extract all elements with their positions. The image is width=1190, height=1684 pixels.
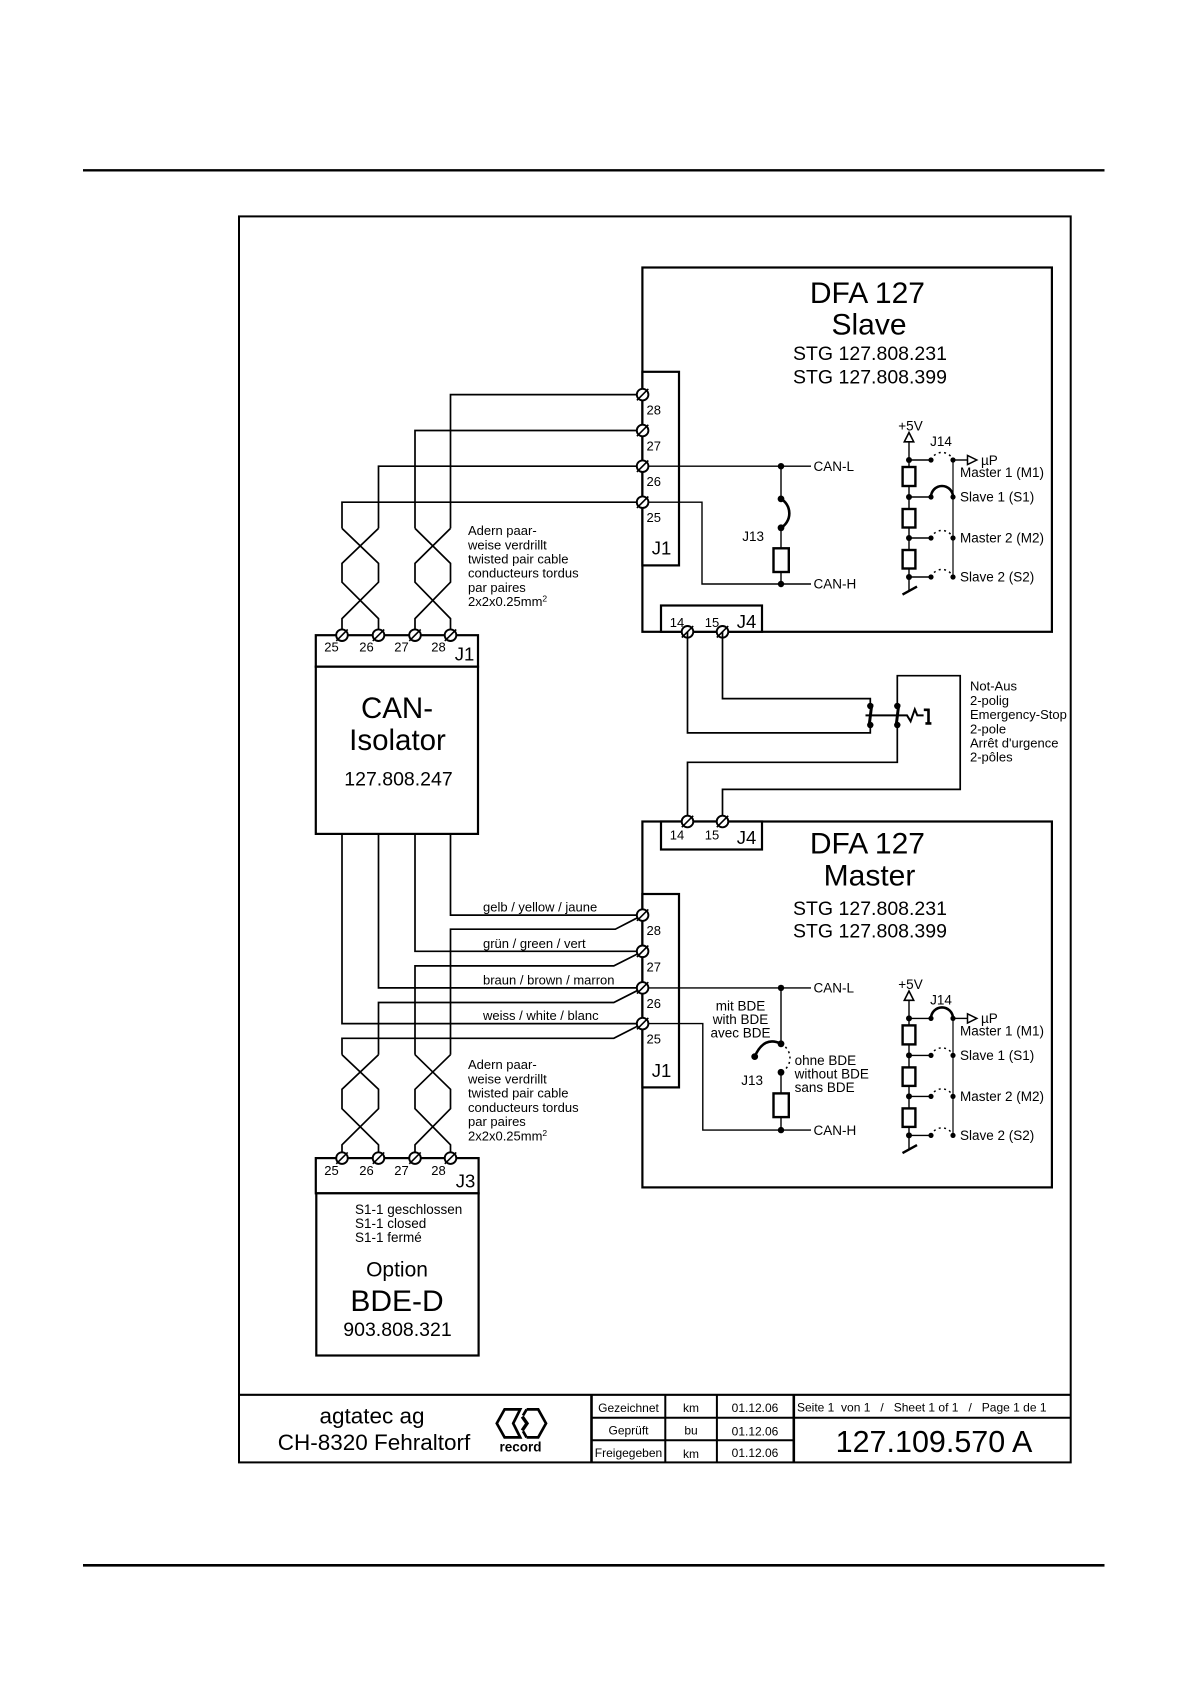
terminal 26 Isolator J1 xyxy=(373,629,385,641)
svg-text:01.12.06: 01.12.06 xyxy=(732,1401,779,1415)
wire return Master pin 25 to lower twisted pair column 1 xyxy=(342,1024,643,1055)
terminal 27 BDE J3 xyxy=(409,1152,421,1164)
BDE-D connector J3 box xyxy=(316,1158,479,1193)
svg-text:25: 25 xyxy=(647,510,661,525)
title block top line xyxy=(239,1394,1071,1396)
svg-text:par paires: par paires xyxy=(468,580,526,595)
svg-text:J14: J14 xyxy=(930,434,952,449)
terminal 25 Isolator J1 xyxy=(336,629,348,641)
company name text xyxy=(278,1404,471,1456)
svg-text:127.808.247: 127.808.247 xyxy=(344,769,452,791)
svg-text:2x2x0.25mm2: 2x2x0.25mm2 xyxy=(468,594,547,610)
svg-text:Slave 1 (S1): Slave 1 (S1) xyxy=(960,490,1034,505)
wire Slave pin 25 to CAN-H xyxy=(643,502,811,584)
svg-text:Seite 1 von 1 / Sheet 1 o: Seite 1 von 1 / Sheet 1 of 1 / Page 1 de… xyxy=(797,1401,1047,1415)
svg-text:2-pole: 2-pole xyxy=(970,721,1006,736)
svg-text:BDE-D: BDE-D xyxy=(350,1285,443,1318)
DFA 127 Slave box xyxy=(642,268,1052,632)
svg-text:STG 127.808.399: STG 127.808.399 xyxy=(793,921,947,943)
svg-text:27: 27 xyxy=(647,439,661,454)
wire from Slave J1 pin 26 to twisted pair column 2 xyxy=(379,466,643,528)
label Not-Aus text block xyxy=(970,679,1067,765)
svg-text:sans BDE: sans BDE xyxy=(795,1080,855,1095)
svg-text:J4: J4 xyxy=(737,611,757,632)
twisted pair upper pair A wire 2 xyxy=(342,528,379,635)
svg-text:conducteurs tordus: conducteurs tordus xyxy=(468,566,579,581)
svg-text:Adern paar-: Adern paar- xyxy=(468,523,537,538)
twisted pair lower pair A wire 1 xyxy=(342,1055,379,1158)
svg-text:Freigegeben: Freigegeben xyxy=(595,1446,662,1460)
svg-text:Master 2 (M2): Master 2 (M2) xyxy=(960,531,1044,546)
terminal 15 Master J4 xyxy=(717,816,729,828)
terminal 28 Slave J1 xyxy=(637,389,649,401)
svg-text:S1-1 closed: S1-1 closed xyxy=(355,1216,426,1231)
svg-text:27: 27 xyxy=(647,959,661,974)
svg-text:par paires: par paires xyxy=(468,1114,526,1129)
jumper row S1 Master xyxy=(906,1048,956,1059)
wire Slave J4-15 to emergency stop pole 1 top xyxy=(723,632,871,706)
wire return Master pin 27 to lower twisted pair column 3 xyxy=(415,951,643,1054)
CAN-Isolator main box xyxy=(316,667,478,834)
svg-text:Not-Aus: Not-Aus xyxy=(970,679,1017,694)
DFA 127 Slave title xyxy=(793,277,947,389)
top rule xyxy=(83,169,1105,171)
+5V rail Slave xyxy=(908,441,910,591)
svg-text:Slave 2 (S2): Slave 2 (S2) xyxy=(960,1128,1034,1143)
connector J4 Slave box xyxy=(661,606,762,632)
resistor R1 Slave network xyxy=(903,467,916,486)
jumper J13 Slave top pin xyxy=(778,496,785,503)
terminal 27 Master J1 xyxy=(637,946,649,958)
svg-text:DFA 127: DFA 127 xyxy=(810,828,925,861)
svg-text:braun / brown / marron: braun / brown / marron xyxy=(483,972,615,987)
emergency stop actuator link xyxy=(866,709,924,721)
svg-text:Geprüft: Geprüft xyxy=(608,1424,649,1438)
jumper row S1 Slave closed xyxy=(906,486,956,500)
resistor R3 Slave network xyxy=(903,550,916,569)
wire return Master pin 26 to lower twisted pair column 2 xyxy=(379,988,643,1055)
label twisted pair upper xyxy=(467,523,579,609)
svg-text:14: 14 xyxy=(670,828,684,843)
svg-text:J13: J13 xyxy=(742,529,764,544)
wire CAN-L to jumper J13 Slave xyxy=(780,466,782,499)
terminal 28 Isolator J1 xyxy=(445,629,457,641)
wire resistor to CAN-H Slave xyxy=(780,572,782,584)
svg-text:+5V: +5V xyxy=(898,977,922,992)
wire from Slave J1 pin 27 to twisted pair column 3 xyxy=(415,431,643,529)
svg-text:J3: J3 xyxy=(456,1171,476,1192)
label ohne BDE block xyxy=(794,1053,869,1095)
terminal 28 Master J1 xyxy=(637,909,649,921)
terminal 26 BDE J3 xyxy=(373,1152,385,1164)
pin number labels Master J1 xyxy=(647,923,661,1047)
svg-text:Master 2 (M2): Master 2 (M2) xyxy=(960,1089,1044,1104)
svg-text:Slave: Slave xyxy=(831,309,906,342)
svg-text:CAN-L: CAN-L xyxy=(814,981,855,996)
svg-text:STG 127.808.231: STG 127.808.231 xyxy=(793,898,947,920)
svg-text:25: 25 xyxy=(324,640,338,655)
terminal 14 Master J4 xyxy=(682,816,694,828)
CAN-Isolator connector J1 box xyxy=(316,635,478,667)
resistor R2 Master network xyxy=(903,1067,916,1086)
svg-text:CH-8320 Fehraltorf: CH-8320 Fehraltorf xyxy=(278,1430,471,1455)
connector J1 Master box xyxy=(642,894,679,1087)
svg-text:28: 28 xyxy=(647,403,661,418)
svg-text:15: 15 xyxy=(705,615,719,630)
svg-text:Arrêt d'urgence: Arrêt d'urgence xyxy=(970,736,1058,751)
svg-text:J1: J1 xyxy=(652,1060,672,1081)
svg-text:28: 28 xyxy=(647,923,661,938)
DFA 127 Master title xyxy=(793,828,947,943)
svg-text:conducteurs tordus: conducteurs tordus xyxy=(468,1100,579,1115)
pin number labels Isolator J1 xyxy=(324,640,445,655)
svg-text:25: 25 xyxy=(324,1163,338,1178)
svg-text:2-pôles: 2-pôles xyxy=(970,750,1013,765)
svg-text:weise verdrillt: weise verdrillt xyxy=(467,537,547,552)
title block table row lines xyxy=(592,1418,1071,1441)
svg-text:avec BDE: avec BDE xyxy=(710,1026,770,1041)
BDE-D main box xyxy=(316,1193,478,1355)
twisted pair lower pair B wire 2 xyxy=(415,1055,451,1158)
jumper row M2 Slave xyxy=(906,530,956,541)
svg-text:Option: Option xyxy=(366,1259,428,1282)
J14 select rail Slave xyxy=(952,460,954,577)
svg-text:25: 25 xyxy=(647,1032,661,1047)
svg-text:127.109.570 A: 127.109.570 A xyxy=(836,1425,1033,1459)
jumper J13 Master open arc (mit BDE position) xyxy=(755,1041,781,1056)
CAN-Isolator title xyxy=(344,692,452,791)
svg-text:grün / green / vert: grün / green / vert xyxy=(483,936,586,951)
wire from Slave J1 pin 28 to twisted pair column 4 xyxy=(451,395,643,529)
svg-text:CAN-H: CAN-H xyxy=(814,577,857,592)
jumper J13 Master park pin xyxy=(751,1053,758,1060)
+5V arrow Master xyxy=(904,991,913,1000)
title block table verticals xyxy=(592,1395,794,1463)
svg-text:weiss / white / blanc: weiss / white / blanc xyxy=(482,1008,599,1023)
svg-text:Master: Master xyxy=(824,860,916,893)
terminal 14 Slave J4 xyxy=(682,626,694,638)
wire emergency stop pole 2 top to Master J4-15 xyxy=(723,676,961,822)
label S1-1 switch state xyxy=(355,1202,462,1245)
svg-text:26: 26 xyxy=(647,474,661,489)
svg-text:26: 26 xyxy=(359,1163,373,1178)
svg-text:14: 14 xyxy=(670,615,684,630)
svg-text:J13: J13 xyxy=(741,1073,763,1088)
node CAN-H junction Master xyxy=(778,1127,784,1133)
terminal 25 BDE J3 xyxy=(336,1152,348,1164)
label twisted pair lower xyxy=(467,1057,579,1143)
terminal 26 Slave J1 xyxy=(637,460,649,472)
svg-text:STG 127.808.231: STG 127.808.231 xyxy=(793,343,947,365)
wire J13 to resistor Master xyxy=(780,1072,782,1093)
svg-text:28: 28 xyxy=(431,1163,445,1178)
jumper row S2 Master xyxy=(906,1128,956,1139)
jumper J13 Master bottom pin xyxy=(778,1069,785,1076)
svg-text:J4: J4 xyxy=(737,827,757,848)
svg-text:km: km xyxy=(683,1401,699,1415)
svg-text:903.808.321: 903.808.321 xyxy=(343,1319,451,1341)
svg-text:Adern paar-: Adern paar- xyxy=(468,1057,537,1072)
terminal 27 Slave J1 xyxy=(637,425,649,437)
resistor R2 Slave network xyxy=(903,509,916,528)
svg-text:Master 1 (M1): Master 1 (M1) xyxy=(960,465,1044,480)
terminal 28 BDE J3 xyxy=(445,1152,457,1164)
twisted pair lower pair B wire 1 xyxy=(415,1055,451,1158)
connector J1 Slave box xyxy=(642,372,679,566)
jumper row M1 Master closed xyxy=(906,1007,956,1021)
svg-text:27: 27 xyxy=(394,640,408,655)
jumper J13 Slave closed arc xyxy=(781,499,789,528)
terminal 27 Isolator J1 xyxy=(409,629,421,641)
svg-text:km: km xyxy=(683,1447,699,1461)
wire Master pin 26 to CAN-L xyxy=(643,987,811,989)
svg-text:CAN-L: CAN-L xyxy=(814,459,855,474)
emergency stop switch S1 pole 1 xyxy=(867,703,873,728)
jumper J13 Master top pin xyxy=(778,1040,785,1047)
svg-text:S1-1 fermé: S1-1 fermé xyxy=(355,1230,422,1245)
resistor R3 Master network xyxy=(903,1108,916,1127)
+5V rail Master xyxy=(908,1000,910,1150)
twisted pair upper pair B wire 2 xyxy=(415,528,451,635)
terminal 26 Master J1 xyxy=(637,982,649,994)
svg-text:CAN-H: CAN-H xyxy=(814,1123,857,1138)
jumper J13 Slave bottom pin xyxy=(778,524,785,531)
emergency stop switch S1 pole 2 xyxy=(894,703,900,728)
node CAN-L junction Slave xyxy=(778,463,784,469)
wire from Slave J1 pin 25 to twisted pair column 1 xyxy=(342,502,643,528)
+5V arrow Slave xyxy=(904,433,913,442)
jumper J13 Master dotted arc (ohne BDE position) xyxy=(781,1044,790,1073)
emergency stop actuator flag xyxy=(924,709,932,724)
label mit BDE block xyxy=(710,998,770,1040)
svg-text:agtatec ag: agtatec ag xyxy=(319,1404,424,1429)
jumper row S2 Slave xyxy=(906,569,956,580)
wire Isolator pin 28 feed to Master J1 pin 28 (gelb) xyxy=(451,834,643,915)
bottom rule xyxy=(83,1564,1105,1567)
microprocessor arrow Slave xyxy=(953,455,977,464)
approval table texts xyxy=(595,1401,779,1461)
svg-text:Isolator: Isolator xyxy=(349,724,446,757)
svg-text:twisted pair cable: twisted pair cable xyxy=(468,552,568,567)
svg-text:gelb / yellow / jaune: gelb / yellow / jaune xyxy=(483,900,597,915)
wire Master pin 25 to CAN-H xyxy=(643,1024,811,1131)
wire emergency stop pole 2 bottom to Master J4-14 xyxy=(688,725,898,822)
resistor CAN termination Master xyxy=(774,1093,789,1117)
svg-text:2-polig: 2-polig xyxy=(970,693,1009,708)
svg-text:bu: bu xyxy=(684,1424,697,1438)
DFA 127 Master box xyxy=(642,822,1052,1188)
svg-text:+5V: +5V xyxy=(898,419,922,434)
wire return Master pin 28 to lower twisted pair column 4 xyxy=(451,915,643,1055)
svg-text:01.12.06: 01.12.06 xyxy=(732,1446,779,1460)
svg-text:record: record xyxy=(499,1440,541,1455)
svg-text:weise verdrillt: weise verdrillt xyxy=(467,1071,547,1086)
BDE-D titles xyxy=(343,1259,451,1342)
resistor CAN termination Slave xyxy=(774,548,789,572)
svg-text:26: 26 xyxy=(647,996,661,1011)
jumper row M2 Master xyxy=(906,1089,956,1100)
pin number labels BDE J3 xyxy=(324,1163,445,1178)
svg-text:Slave 1 (S1): Slave 1 (S1) xyxy=(960,1048,1034,1063)
svg-text:STG 127.808.399: STG 127.808.399 xyxy=(793,366,947,388)
svg-text:15: 15 xyxy=(705,828,719,843)
microprocessor arrow Master xyxy=(953,1014,977,1023)
svg-text:twisted pair cable: twisted pair cable xyxy=(468,1086,568,1101)
node CAN-L junction Master xyxy=(778,985,784,991)
wire Isolator pin 27 feed to Master J1 pin 27 (gruen) xyxy=(415,834,643,951)
twisted pair lower pair A wire 2 xyxy=(342,1055,379,1158)
svg-text:J14: J14 xyxy=(930,992,952,1007)
wire Slave J4-14 to emergency stop pole 1 bottom xyxy=(688,632,871,733)
twisted pair upper pair A wire 1 xyxy=(342,528,379,635)
svg-text:Slave 2 (S2): Slave 2 (S2) xyxy=(960,570,1034,585)
svg-text:J1: J1 xyxy=(455,644,475,665)
wire CAN-L Slave xyxy=(643,465,811,467)
wire Isolator pin 26 feed to Master J1 pin 26 (braun) xyxy=(379,834,643,988)
resistor R1 Master network xyxy=(903,1025,916,1044)
svg-text:Master 1 (M1): Master 1 (M1) xyxy=(960,1023,1044,1038)
svg-text:Emergency-Stop: Emergency-Stop xyxy=(970,707,1067,722)
node CAN-H junction Slave xyxy=(778,581,784,587)
wire Isolator pin 25 feed to Master J1 pin 25 (weiss) xyxy=(342,834,643,1024)
svg-text:27: 27 xyxy=(394,1163,408,1178)
J14 select rail Master xyxy=(952,1018,954,1135)
svg-text:01.12.06: 01.12.06 xyxy=(732,1424,779,1438)
svg-text:CAN-: CAN- xyxy=(361,692,433,725)
terminal 25 Master J1 xyxy=(637,1018,649,1030)
connector J4 Master box xyxy=(661,822,762,850)
svg-text:S1-1 geschlossen: S1-1 geschlossen xyxy=(355,1202,462,1217)
ground stroke Master xyxy=(903,1145,918,1153)
wire resistor to CAN-H Master xyxy=(780,1117,782,1130)
pin number labels Slave J1 xyxy=(647,403,661,526)
terminal 25 Slave J1 xyxy=(637,496,649,508)
wire CAN-L to jumper J13 Master xyxy=(780,988,782,1044)
svg-text:Gezeichnet: Gezeichnet xyxy=(598,1401,659,1415)
svg-text:DFA 127: DFA 127 xyxy=(810,277,925,310)
ground stroke Slave xyxy=(903,587,918,595)
jumper row M1 Slave xyxy=(906,452,956,463)
svg-text:28: 28 xyxy=(431,640,445,655)
twisted pair upper pair B wire 1 xyxy=(415,528,451,635)
svg-text:J1: J1 xyxy=(652,538,672,559)
record logo xyxy=(497,1409,546,1437)
drawing frame border xyxy=(239,216,1071,1462)
wire J13 to resistor Slave xyxy=(780,528,782,549)
terminal 15 Slave J4 xyxy=(717,626,729,638)
svg-text:2x2x0.25mm2: 2x2x0.25mm2 xyxy=(468,1128,547,1144)
svg-text:26: 26 xyxy=(359,640,373,655)
